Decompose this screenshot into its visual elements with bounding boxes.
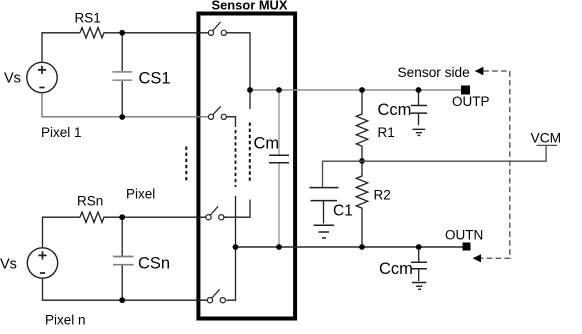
arrowhead bottom (OUTN): [473, 254, 481, 262]
node dot Cm top: [276, 87, 282, 93]
svg-text:R2: R2: [374, 188, 391, 203]
switch S4: [207, 289, 225, 303]
wire OUTP bus (y=90): [250, 89, 461, 91]
P bus dashed segment: [249, 123, 251, 184]
capacitor Ccm (top): [411, 90, 427, 125]
wire pixel n top: [43, 217, 206, 247]
capacitor C1: [310, 188, 339, 224]
capacitor Ccm (bottom): [411, 247, 427, 281]
wire VCM net: [323, 145, 558, 187]
wire pixel1 top: [42, 33, 208, 62]
ground (Ccm bottom): [412, 283, 426, 290]
node dot Ccm bottom: [416, 244, 422, 250]
svg-text:Ccm: Ccm: [378, 101, 412, 119]
switch S2: [208, 106, 226, 119]
wire pixel1 bottom: [42, 93, 208, 117]
terminal OUTP: [461, 86, 470, 95]
svg-text:Vs: Vs: [4, 70, 21, 86]
node dot pixel1 top: [119, 30, 125, 36]
capacitor Cm: [269, 90, 289, 247]
svg-text:OUTN: OUTN: [445, 228, 483, 243]
svg-text:R1: R1: [378, 125, 395, 140]
node dot Ccm top: [416, 87, 422, 93]
svg-text:Ccm: Ccm: [379, 260, 413, 278]
dashed feedback path: [481, 71, 510, 258]
voltage source Vs (top): [27, 62, 57, 92]
node dot pixel n top: [119, 214, 125, 220]
svg-text:OUTP: OUTP: [452, 94, 490, 109]
arrowhead top (sensor side): [475, 67, 484, 75]
node dot P bus: [247, 87, 253, 93]
resistor R1: [356, 90, 367, 161]
svg-text:Vs: Vs: [0, 256, 17, 272]
N bus solid segment: [226, 196, 235, 300]
ellipsis dashed line (left of MUX): [185, 147, 187, 184]
resistor RS1: [80, 28, 105, 38]
svg-text:Pixel 1: Pixel 1: [41, 125, 82, 140]
node dot pixel1 bottom: [119, 114, 125, 120]
svg-text:C1: C1: [333, 203, 353, 220]
node dot Cm bottom: [276, 244, 282, 250]
svg-text:RSn: RSn: [77, 193, 103, 208]
svg-text:Sensor MUX: Sensor MUX: [212, 0, 288, 13]
N bus dashed segment: [235, 130, 237, 187]
wire S1 to P bus: [226, 33, 250, 109]
voltage source Vs (bottom): [27, 248, 57, 278]
resistor RSn: [80, 212, 105, 222]
svg-text:Sensor side: Sensor side: [398, 65, 470, 80]
switch S1: [208, 22, 226, 35]
svg-text:CSn: CSn: [138, 255, 170, 273]
terminal OUTN: [463, 243, 471, 251]
svg-text:CS1: CS1: [139, 70, 171, 88]
sensor MUX box: [198, 14, 295, 319]
node dot pixel n bottom: [119, 297, 125, 303]
ground (C1): [314, 225, 335, 238]
capacitor CS1: [113, 33, 133, 117]
wire S2 to N bus: [226, 117, 235, 127]
P bus lower solid segment: [224, 200, 250, 218]
resistor R2: [356, 161, 367, 247]
capacitor CSn: [113, 217, 134, 300]
switch S3: [206, 206, 224, 219]
node dot N bus: [233, 244, 239, 250]
wire pixel n bottom: [43, 279, 208, 301]
node dot R1 top: [359, 87, 365, 93]
svg-text:VCM: VCM: [531, 130, 562, 145]
wire OUTN bus (y=247): [236, 246, 463, 248]
node dot R2 bottom: [359, 244, 365, 250]
svg-text:Pixel n: Pixel n: [45, 313, 86, 328]
svg-text:Cm: Cm: [254, 135, 280, 153]
node dot R1/R2 mid: [359, 158, 365, 164]
ground (Ccm top): [412, 129, 425, 135]
svg-text:RS1: RS1: [75, 11, 101, 26]
svg-text:Pixel: Pixel: [126, 187, 155, 202]
